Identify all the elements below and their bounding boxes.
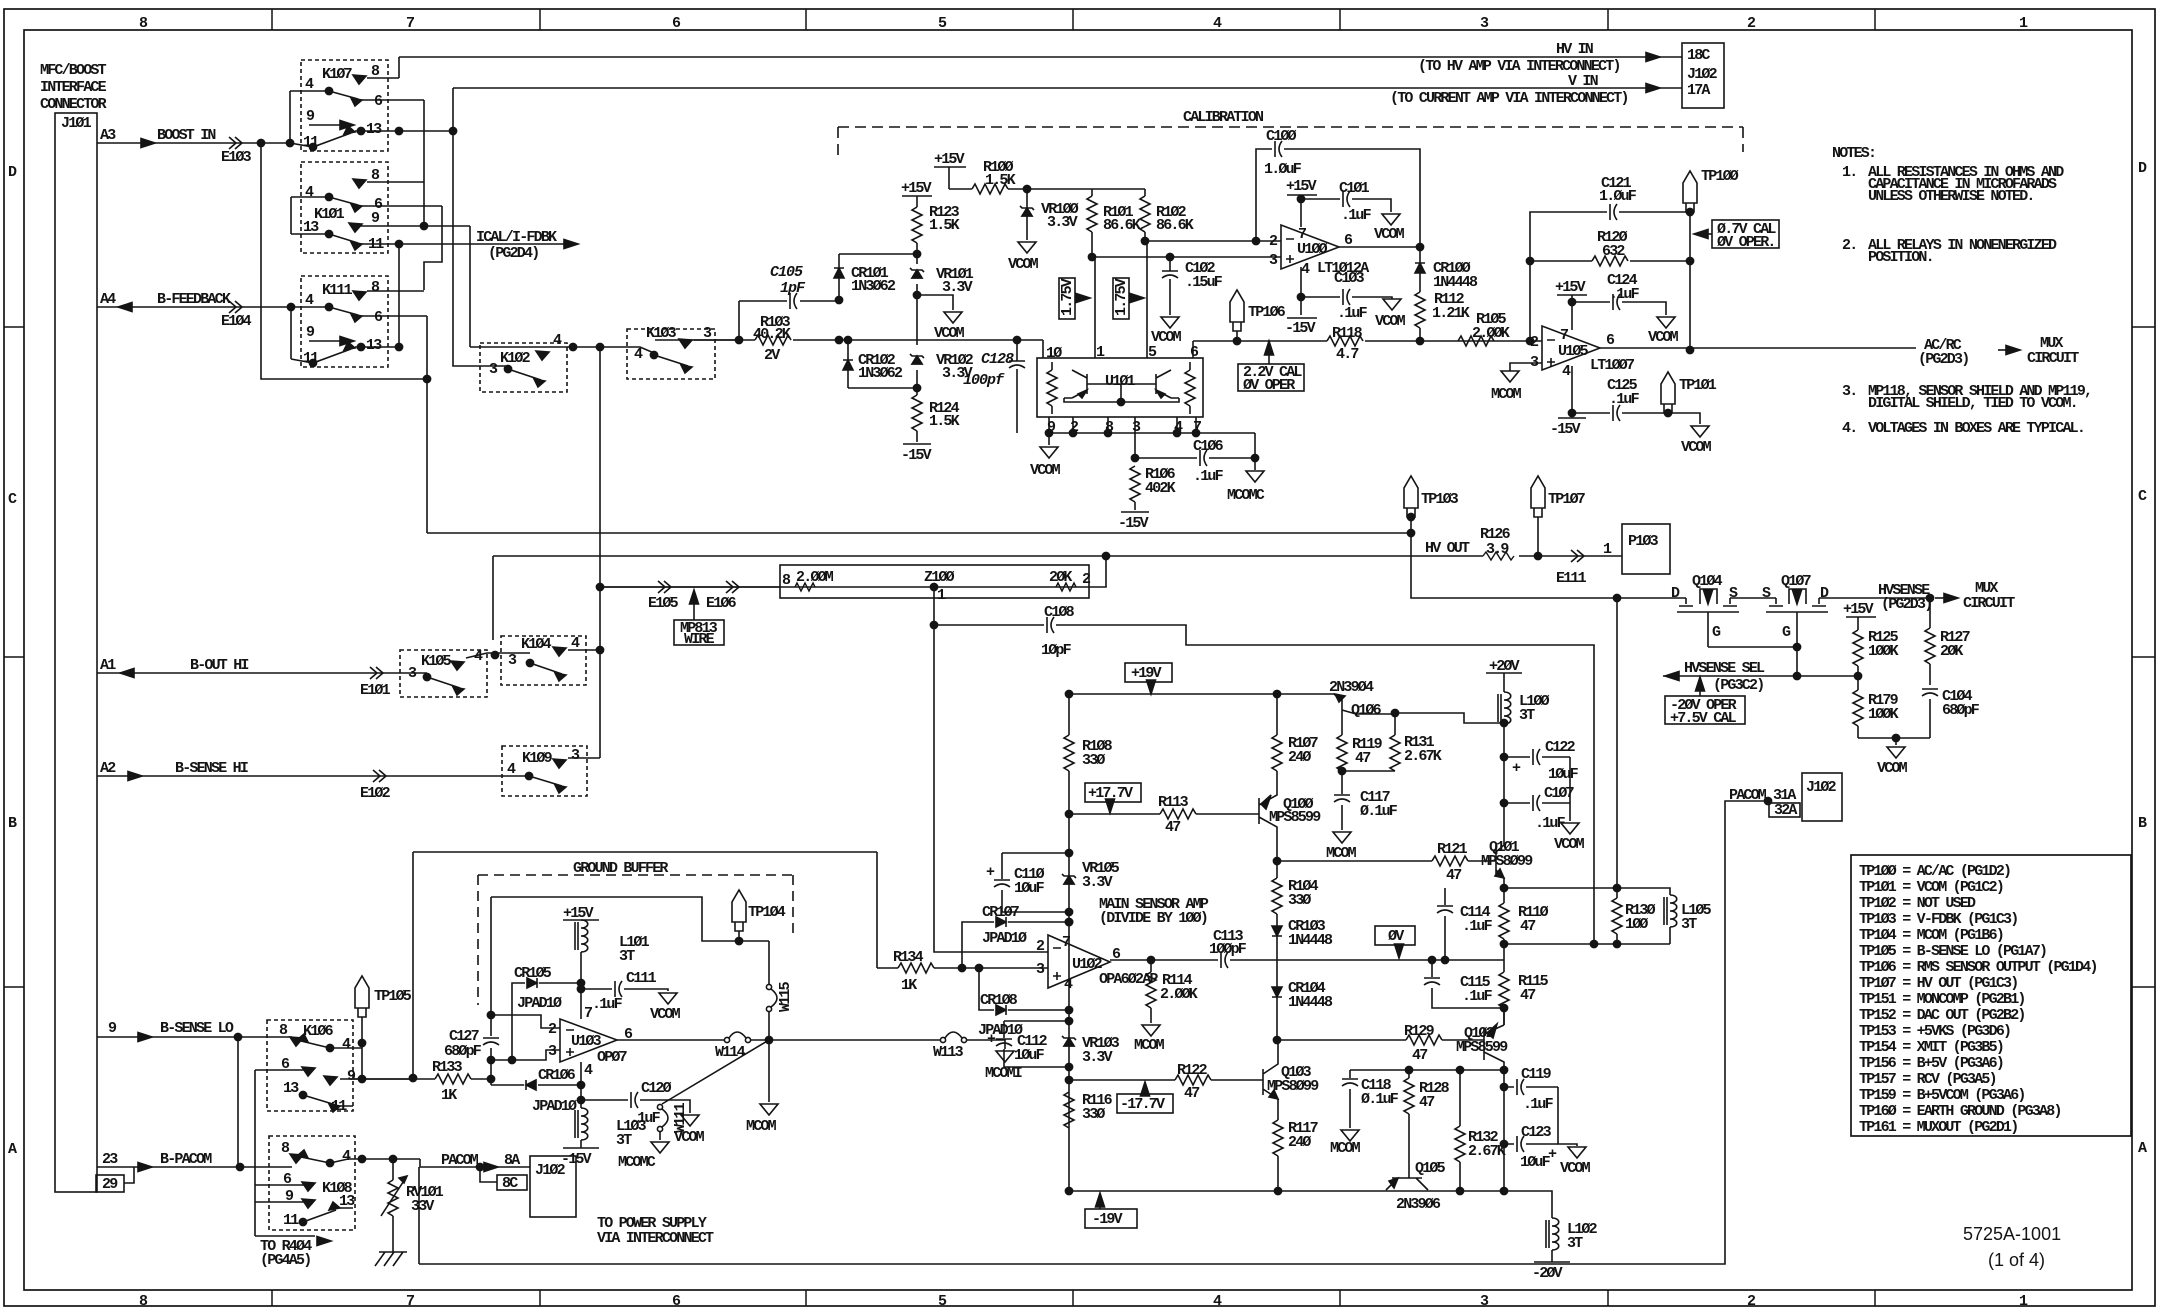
svg-text:TP1Ø1: TP1Ø1 <box>1679 377 1717 394</box>
relay K103 <box>627 329 715 379</box>
svg-text:TP1Ø2 = NOT USED: TP1Ø2 = NOT USED <box>1859 895 1976 912</box>
svg-text:-15V: -15V <box>1285 320 1316 337</box>
svg-text:2ØK: 2ØK <box>1940 643 1963 660</box>
svg-text:HV OUT: HV OUT <box>1425 540 1470 557</box>
wire B-SENSE-LO feed <box>413 852 877 1078</box>
svg-text:-17.7V: -17.7V <box>1120 1096 1165 1113</box>
capacitor C122 <box>1504 756 1570 758</box>
svg-text:8: 8 <box>371 279 380 296</box>
ground MCOM C118 <box>1341 1130 1359 1141</box>
svg-text:(PG4A5): (PG4A5) <box>260 1252 310 1269</box>
svg-text:32A: 32A <box>1774 802 1797 819</box>
svg-text:D: D <box>1820 585 1829 602</box>
svg-text:3.3V: 3.3V <box>942 279 973 296</box>
svg-text:1ØpF: 1ØpF <box>1041 642 1072 659</box>
power -20V <box>1534 1250 1570 1262</box>
svg-text:C1Ø6: C1Ø6 <box>1193 438 1224 455</box>
jumper W111 <box>662 1040 769 1104</box>
resistor R106 <box>1130 466 1140 502</box>
svg-text:TP1Ø5 = B-SENSE LO (PG1A7): TP1Ø5 = B-SENSE LO (PG1A7) <box>1859 943 2046 960</box>
svg-text:R121: R121 <box>1437 841 1468 858</box>
svg-text:68ØpF: 68ØpF <box>444 1043 482 1060</box>
wire TO R404 <box>255 1235 315 1237</box>
svg-text:W115: W115 <box>777 981 794 1012</box>
wire K111 left riser <box>290 307 292 359</box>
svg-text:+: + <box>1512 760 1521 777</box>
resistor R104 <box>1276 861 1278 878</box>
ground MCOM R114 <box>1142 1025 1160 1036</box>
node -19V box <box>1085 1209 1137 1228</box>
svg-text:4: 4 <box>584 1062 593 1079</box>
node -17.7V box <box>1117 1094 1173 1113</box>
svg-text:K1Ø9: K1Ø9 <box>522 750 553 767</box>
svg-text:(PG3C2): (PG3C2) <box>1713 677 1763 694</box>
jumper W115 <box>766 984 771 989</box>
svg-text:CIRCUIT: CIRCUIT <box>2027 350 2079 367</box>
zener VR102 <box>910 354 924 364</box>
wire U100 output <box>1339 246 1420 248</box>
svg-text:8: 8 <box>139 1293 148 1310</box>
svg-text:33Ø: 33Ø <box>1082 752 1105 769</box>
op-amp U100 <box>1281 225 1339 269</box>
relay K108 <box>269 1136 355 1230</box>
inductor L101 <box>575 920 588 952</box>
svg-text:7: 7 <box>584 1005 592 1022</box>
svg-text:MPS8Ø99: MPS8Ø99 <box>1481 853 1533 870</box>
resistor R102 <box>1144 189 1146 241</box>
ground VCOM C119/C123 <box>1558 1087 1577 1146</box>
capacitor C120 <box>581 1100 690 1113</box>
svg-text:Q1Ø5: Q1Ø5 <box>1415 1160 1446 1177</box>
svg-text:B: B <box>8 815 17 832</box>
connector J102 PACOM <box>1802 773 1842 821</box>
svg-text:6: 6 <box>374 309 383 326</box>
callout MP813 WIRE <box>693 604 695 620</box>
svg-text:47: 47 <box>1412 1047 1427 1064</box>
wire Q102 emitter row <box>1350 1069 1504 1071</box>
zener VR101 <box>910 268 924 278</box>
svg-text:Z1ØØ: Z1ØØ <box>924 569 955 586</box>
svg-text:47: 47 <box>1165 819 1180 836</box>
svg-text:UNLESS OTHERWISE NOTED.: UNLESS OTHERWISE NOTED. <box>1868 188 2034 205</box>
svg-text:MPS8599: MPS8599 <box>1456 1039 1508 1056</box>
zone tick marks bottom <box>272 1290 1875 1306</box>
svg-text:P1Ø3: P1Ø3 <box>1628 533 1659 550</box>
svg-text:MCOMI: MCOMI <box>985 1065 1022 1082</box>
wire U100 pin2 <box>1145 240 1281 242</box>
node 1.75V box right <box>1113 278 1129 319</box>
ground VCOM divider <box>1858 737 1930 739</box>
svg-text:R118: R118 <box>1332 325 1363 342</box>
svg-text:5: 5 <box>938 1293 947 1310</box>
svg-text:1N4448: 1N4448 <box>1433 274 1478 291</box>
svg-text:TP1Ø1 = VCOM (PG1C2): TP1Ø1 = VCOM (PG1C2) <box>1859 879 2003 896</box>
svg-text:K1Ø2: K1Ø2 <box>500 350 531 367</box>
svg-text:3.3V: 3.3V <box>1047 214 1078 231</box>
svg-text:D: D <box>8 164 17 181</box>
svg-text:1ØuF: 1ØuF <box>1014 1047 1045 1064</box>
node 0.7V CAL box <box>1712 220 1779 248</box>
svg-text:-15V: -15V <box>901 447 932 464</box>
wire K108 pin4 net <box>358 1155 365 1162</box>
wire 2V main <box>655 339 1043 341</box>
resistor R124 <box>912 395 922 431</box>
resistor R128 <box>1408 1070 1410 1078</box>
connector J102 top <box>1682 43 1724 108</box>
wire U103 output <box>617 941 769 1040</box>
svg-text:1N3Ø62: 1N3Ø62 <box>858 365 903 382</box>
inductor L102 <box>1504 1191 1552 1218</box>
transistor Q105 <box>1386 1178 1428 1190</box>
svg-text:K1Ø6: K1Ø6 <box>303 1023 334 1040</box>
svg-text:1pF: 1pF <box>780 280 806 297</box>
capacitor C102 <box>1169 257 1171 315</box>
ground VCOM C101 <box>1382 214 1400 225</box>
svg-text:Q1Ø4: Q1Ø4 <box>1692 573 1723 590</box>
wire Z100 tap to U102 pin2 <box>934 587 1048 952</box>
resistor R110 <box>1500 884 1507 891</box>
svg-text:ØV: ØV <box>1388 928 1404 945</box>
svg-text:TP157 = RCV (PG3A5): TP157 = RCV (PG3A5) <box>1859 1071 1996 1088</box>
svg-text:K1Ø3: K1Ø3 <box>646 325 677 342</box>
svg-text:-19V: -19V <box>1092 1211 1123 1228</box>
svg-text:1.5K: 1.5K <box>929 217 960 234</box>
wire node B row <box>1504 943 1617 945</box>
ground MCOM output <box>768 1040 770 1102</box>
svg-text:11: 11 <box>283 1212 299 1229</box>
diode CR107 <box>962 922 1069 968</box>
svg-text:2.ØØM: 2.ØØM <box>796 569 834 586</box>
svg-text:D: D <box>1671 585 1680 602</box>
svg-text:.1uF: .1uF <box>1341 207 1372 224</box>
svg-text:1.ØuF: 1.ØuF <box>1599 188 1637 205</box>
svg-text:1ØuF: 1ØuF <box>1520 1154 1551 1171</box>
svg-text:.1uF: .1uF <box>1523 1096 1554 1113</box>
svg-text:29: 29 <box>102 1176 118 1193</box>
svg-text:B: B <box>2138 815 2147 832</box>
svg-text:VCOM: VCOM <box>1030 462 1061 479</box>
svg-text:.1uF: .1uF <box>1609 286 1640 303</box>
svg-text:D: D <box>2138 160 2147 177</box>
resistor R115 <box>1503 944 1505 972</box>
svg-text:1.5K: 1.5K <box>985 172 1016 189</box>
svg-text:1: 1 <box>937 587 946 604</box>
-15V U105 pin4 <box>1558 366 1586 418</box>
ground VCOM C103 <box>1383 299 1401 310</box>
power -15V L103 <box>563 1140 599 1148</box>
svg-text:3: 3 <box>1480 1293 1489 1310</box>
resistor R117 <box>1273 1120 1283 1156</box>
svg-text:VCOM: VCOM <box>1374 226 1405 243</box>
svg-text:MFC/BOOST: MFC/BOOST <box>40 62 107 79</box>
svg-text:A4: A4 <box>100 291 116 308</box>
wire K107pin6 to K101pin8 <box>423 100 425 226</box>
svg-text:VCOM: VCOM <box>1681 439 1712 456</box>
svg-text:C1Ø7: C1Ø7 <box>1544 785 1574 802</box>
svg-text:B-SENSE HI: B-SENSE HI <box>175 760 248 777</box>
svg-text:.1uF: .1uF <box>1609 391 1640 408</box>
transistor Q106 <box>1329 679 1382 719</box>
U101 internal resistors <box>1047 370 1057 406</box>
svg-text:DIGITAL SHIELD, TIED TO VCOM.: DIGITAL SHIELD, TIED TO VCOM. <box>1868 395 2077 412</box>
U101 bottom pin wires <box>1049 417 1255 458</box>
svg-text:4: 4 <box>342 1148 351 1165</box>
testpoint TP104 <box>732 890 746 931</box>
op-amp U103 <box>560 1019 617 1062</box>
label MAIN SENSOR AMP <box>1099 896 1209 927</box>
wire bottom rail <box>1069 1190 1504 1192</box>
svg-text:3: 3 <box>508 652 517 669</box>
wire to CR101 <box>839 253 917 255</box>
svg-text:C: C <box>8 491 17 508</box>
svg-text:4: 4 <box>1562 363 1571 380</box>
svg-text:47: 47 <box>1419 1094 1434 1111</box>
wire Q100 collector row <box>1277 860 1496 862</box>
svg-text:MCOMC: MCOMC <box>618 1154 656 1171</box>
capacitor C125 <box>1572 413 1700 424</box>
svg-text:4: 4 <box>1213 1293 1222 1310</box>
svg-text:23: 23 <box>102 1151 118 1168</box>
svg-text:C1ØØ: C1ØØ <box>1266 128 1297 145</box>
svg-text:ICAL/I-FDBK: ICAL/I-FDBK <box>476 229 557 246</box>
svg-text:Q1Ø6: Q1Ø6 <box>1351 702 1382 719</box>
svg-text:K111: K111 <box>322 282 353 299</box>
relay K104 <box>501 636 586 685</box>
connector J102 bottom <box>530 1156 576 1217</box>
net AC/RC to MUX <box>1918 335 2079 368</box>
U101 internal transistor pair <box>1064 370 1179 402</box>
svg-text:1ØuF: 1ØuF <box>1014 880 1045 897</box>
svg-text:68ØpF: 68ØpF <box>1942 702 1980 719</box>
svg-text:E1Ø6: E1Ø6 <box>706 595 737 612</box>
svg-text:+7.5V CAL: +7.5V CAL <box>1670 710 1737 727</box>
svg-text:A3: A3 <box>100 127 116 144</box>
svg-text:.1uF: .1uF <box>592 996 623 1013</box>
ground MCOMC W111 <box>659 1131 661 1140</box>
power -15V R106 <box>1121 511 1149 513</box>
op-amp U102 <box>1048 935 1110 988</box>
svg-text:47: 47 <box>1520 918 1535 935</box>
svg-text:1.75V: 1.75V <box>1059 278 1076 316</box>
svg-text:J1Ø2: J1Ø2 <box>1806 779 1837 796</box>
svg-text:G: G <box>1782 624 1791 641</box>
wire R118 row <box>1193 340 1542 342</box>
svg-text:K1Ø5: K1Ø5 <box>421 653 452 670</box>
calibration dashed boundary <box>838 127 1743 155</box>
transistor Q100 <box>1259 771 1277 861</box>
svg-text:CALIBRATION: CALIBRATION <box>1183 109 1264 126</box>
inductor L103 <box>575 1108 588 1140</box>
svg-text:1K: 1K <box>901 977 917 994</box>
svg-text:33V: 33V <box>411 1198 434 1215</box>
resistor R131 <box>1394 713 1396 735</box>
wire U103 feedback loop <box>491 897 769 1085</box>
svg-text:ØV OPER: ØV OPER <box>1243 377 1295 394</box>
resistor R103 <box>755 335 791 345</box>
svg-text:9: 9 <box>108 1020 117 1037</box>
svg-text:OPA6Ø2AP: OPA6Ø2AP <box>1099 971 1158 988</box>
capacitor C103 <box>1301 297 1392 299</box>
svg-text:86.6K: 86.6K <box>1156 217 1194 234</box>
wire node A row <box>1504 887 1617 889</box>
connector J101 <box>55 113 97 1192</box>
junction on BOOST IN <box>257 139 264 146</box>
svg-text:9: 9 <box>306 108 315 125</box>
wire U103 pin4 column <box>580 1062 582 1108</box>
svg-text:3: 3 <box>571 747 580 764</box>
ground earth RV101 <box>375 1252 407 1266</box>
wire V to K102/K103 column <box>599 347 601 758</box>
svg-text:K1Ø7: K1Ø7 <box>322 66 352 83</box>
relay K109 <box>502 746 587 796</box>
wire K111 pin6 riser <box>426 316 428 533</box>
capacitor C127 <box>483 1038 499 1045</box>
wire CR102 to VR102 <box>848 387 917 389</box>
svg-text:OPØ7: OPØ7 <box>597 1049 627 1066</box>
svg-text:B-PACOM: B-PACOM <box>160 1151 212 1168</box>
zone tick marks left <box>4 327 24 987</box>
svg-text:3T: 3T <box>1519 707 1535 724</box>
diode CR103 <box>1276 914 1278 1040</box>
wire ICAL arrow <box>564 240 578 249</box>
svg-text:3.3V: 3.3V <box>1082 1049 1113 1066</box>
svg-text:+15V: +15V <box>1286 178 1317 195</box>
svg-text:1ØØpF: 1ØØpF <box>1209 941 1247 958</box>
wire HVSENSE SEL <box>1663 675 1858 677</box>
wire right column lower <box>1503 1070 1505 1191</box>
wire V IN riser k101pin6 <box>424 206 442 290</box>
wire HV IN <box>399 56 1682 58</box>
svg-text:C122: C122 <box>1545 739 1576 756</box>
resistor R101 <box>1091 189 1093 257</box>
svg-text:VOLTAGES IN BOXES ARE TYPICAL.: VOLTAGES IN BOXES ARE TYPICAL. <box>1868 420 2084 437</box>
ground VCOM C120 <box>681 1115 699 1126</box>
svg-text:B-FEEDBACK: B-FEEDBACK <box>157 291 231 308</box>
svg-text:1Ø: 1Ø <box>1046 345 1062 362</box>
capacitor C100 feedback <box>1256 149 1420 247</box>
svg-text:CR1Ø8: CR1Ø8 <box>980 992 1018 1009</box>
svg-text:2.ØØK: 2.ØØK <box>1160 986 1198 1003</box>
svg-text:E1Ø2: E1Ø2 <box>360 785 391 802</box>
svg-text:47: 47 <box>1355 750 1370 767</box>
ground VCOM <box>1018 242 1036 253</box>
svg-text:86.6K: 86.6K <box>1103 217 1141 234</box>
svg-text:17A: 17A <box>1687 82 1710 99</box>
capacitor C128 <box>1016 340 1018 433</box>
svg-text:TP152 = DAC OUT (PG2B2): TP152 = DAC OUT (PG2B2) <box>1859 1007 2025 1024</box>
svg-text:(PG2D4): (PG2D4) <box>488 245 538 262</box>
capacitor C123 <box>1504 1143 1558 1145</box>
resistor R108 <box>1068 694 1070 735</box>
wire V-FDBK row <box>427 532 1411 534</box>
svg-text:TP1Ø4 = MCOM (PG1B6): TP1Ø4 = MCOM (PG1B6) <box>1859 927 2003 944</box>
relay K111 <box>301 276 388 367</box>
svg-text:R134: R134 <box>893 949 924 966</box>
svg-text:K1Ø1: K1Ø1 <box>314 206 345 223</box>
svg-text:POSITION.: POSITION. <box>1868 249 1933 266</box>
svg-text:GROUND BUFFER: GROUND BUFFER <box>573 860 668 877</box>
wire boost-in down <box>261 143 427 379</box>
node 0V box <box>1375 926 1415 945</box>
diode CR105 <box>512 983 581 1060</box>
resistor R121 <box>1432 856 1468 866</box>
U101 pin risers <box>1043 241 1193 358</box>
svg-text:MCOMC: MCOMC <box>1227 487 1265 504</box>
resistor R107 <box>1276 694 1278 735</box>
capacitor C107 <box>1504 802 1570 804</box>
svg-text:TP1Ø7 = HV OUT (PG1C3): TP1Ø7 = HV OUT (PG1C3) <box>1859 975 2017 992</box>
capacitor C113 <box>1221 952 1228 968</box>
svg-text:E1Ø3: E1Ø3 <box>221 149 252 166</box>
capacitor C111 <box>581 989 668 991</box>
svg-text:18C: 18C <box>1687 47 1710 64</box>
svg-text:U1Ø5: U1Ø5 <box>1558 343 1589 360</box>
svg-text:TP1ØØ: TP1ØØ <box>1701 168 1739 185</box>
svg-text:BOOST IN: BOOST IN <box>157 127 216 144</box>
svg-text:3T: 3T <box>1681 916 1697 933</box>
svg-text:13: 13 <box>366 337 382 354</box>
capacitor C101 <box>1301 199 1391 212</box>
svg-text:INTERFACE: INTERFACE <box>40 79 107 96</box>
svg-text:TP153 = +5VKS (PG3D6): TP153 = +5VKS (PG3D6) <box>1859 1023 2010 1040</box>
svg-text:Ø.1uF: Ø.1uF <box>1361 1091 1399 1108</box>
testpoint TP106 <box>1230 290 1244 331</box>
svg-text:J1Ø1: J1Ø1 <box>61 115 92 132</box>
svg-text:.15uF: .15uF <box>1185 274 1223 291</box>
svg-text:(PG2D3): (PG2D3) <box>1918 351 1968 368</box>
svg-text:NOTES:: NOTES: <box>1832 145 1875 162</box>
ground buffer dashed box <box>478 875 793 1005</box>
resistor R112 <box>1415 292 1425 328</box>
svg-text:7: 7 <box>406 15 414 32</box>
net PACOM to J102 <box>441 1152 520 1169</box>
wire U100 pin3 <box>1092 256 1281 258</box>
svg-text:C111: C111 <box>626 970 657 987</box>
wire feedback right vertical <box>1689 212 1691 350</box>
capacitor C119 <box>1504 1086 1558 1088</box>
svg-text:R122: R122 <box>1177 1062 1208 1079</box>
svg-text:2: 2 <box>548 1021 557 1038</box>
wire TP103 down to Q104 drain <box>1411 533 1686 598</box>
svg-text:(1 of 4): (1 of 4) <box>1988 1250 2045 1270</box>
svg-text:C119: C119 <box>1521 1066 1552 1083</box>
svg-text:E1Ø1: E1Ø1 <box>360 682 391 699</box>
ground VCOM U101 <box>1048 433 1050 445</box>
svg-text:VCOM: VCOM <box>1560 1160 1591 1177</box>
wire K106 left risers <box>238 1037 255 1236</box>
testpoint TP105 <box>355 976 369 1017</box>
svg-text:TP154 = XMIT (PG3B5): TP154 = XMIT (PG3B5) <box>1859 1039 2003 1056</box>
svg-text:R133: R133 <box>432 1059 463 1076</box>
svg-text:A2: A2 <box>100 760 116 777</box>
wire R122 row <box>1069 1079 1263 1081</box>
svg-text:C12Ø: C12Ø <box>641 1080 672 1097</box>
svg-text:47: 47 <box>1520 987 1535 1004</box>
svg-text:3.3V: 3.3V <box>1082 874 1113 891</box>
svg-text:C123: C123 <box>1521 1124 1552 1141</box>
zener VR100 <box>1026 189 1028 240</box>
svg-text:8C: 8C <box>502 1175 518 1192</box>
svg-text:1.75V: 1.75V <box>1113 278 1130 316</box>
wire U102 output row <box>1110 959 1504 961</box>
svg-text:JPAD1Ø: JPAD1Ø <box>532 1098 577 1115</box>
capacitor C115 <box>1431 960 1433 977</box>
transistor Q102 <box>1484 1025 1504 1070</box>
wire R113 row <box>1069 813 1259 815</box>
svg-text:1N4448: 1N4448 <box>1288 932 1333 949</box>
svg-text:TP1Ø3 = V-FDBK (PG1C3): TP1Ø3 = V-FDBK (PG1C3) <box>1859 911 2017 928</box>
svg-text:TP1Ø6 = RMS SENSOR OUTPUT (PG: TP1Ø6 = RMS SENSOR OUTPUT (PG1D4) <box>1859 959 2097 976</box>
